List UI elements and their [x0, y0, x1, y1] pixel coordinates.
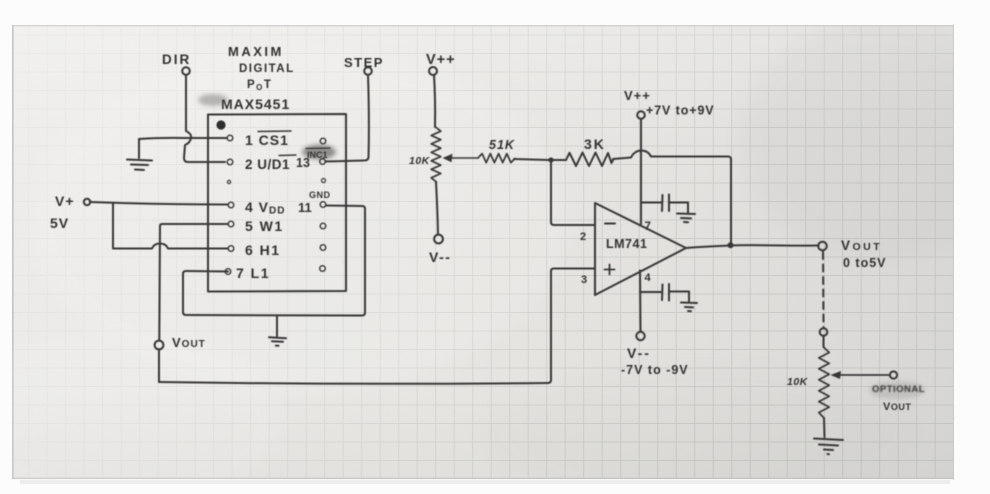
svg-text:LM741: LM741 [606, 237, 647, 251]
potentiometer R4 10K element [819, 347, 829, 418]
label POT [247, 79, 272, 92]
svg-text:51K: 51K [489, 138, 515, 152]
wire 3K to feedback corner (hops over V++ line) [613, 151, 731, 245]
pin 4 circle [228, 202, 234, 208]
ground G3 (C1) [677, 203, 695, 223]
ground G4 (C2) [681, 292, 697, 312]
label 0 to 5V [843, 256, 887, 270]
svg-text:7 L1: 7 L1 [236, 265, 270, 281]
ink layer [50, 44, 925, 454]
right pin circle row 1 [320, 138, 326, 144]
op-amp minus sign [605, 223, 615, 225]
node V++ label (op-amp) [624, 88, 651, 103]
svg-text:+7V to+9V: +7V to+9V [646, 104, 715, 118]
node STEP terminal [364, 67, 372, 75]
wire VOUT column down to long bottom wire [158, 349, 160, 382]
stray pin dot [227, 180, 230, 183]
ground G1 (CS1 pin) [127, 139, 152, 170]
capacitor C2 leads [640, 291, 689, 294]
pin 7 label 7 L1 [236, 265, 270, 281]
IC pin-1 indicator dot [216, 120, 225, 129]
value label 51K [489, 138, 515, 152]
pin 13 number [296, 156, 310, 170]
wire V++ to pot top [434, 75, 435, 127]
node VOUT label (left) [172, 335, 206, 350]
node V-- supply terminal [636, 332, 644, 340]
pin 5 circle [228, 221, 234, 227]
node V++ label (pot) [426, 52, 456, 68]
svg-text:0 to5V: 0 to5V [843, 256, 887, 270]
label OPTIONAL [872, 384, 925, 395]
svg-text:V--: V-- [429, 249, 451, 265]
svg-text:3K: 3K [584, 136, 606, 152]
pin 2 circle [227, 159, 233, 165]
svg-text:VOUT: VOUT [883, 401, 911, 413]
pin 2 label 2U/D1 with overline [245, 157, 290, 172]
label +7V to +9V [646, 104, 715, 118]
svg-text:MAX5451: MAX5451 [221, 96, 290, 112]
svg-text:V++: V++ [624, 88, 651, 103]
svg-text:6 H1: 6 H1 [245, 242, 281, 258]
ground G2 (IC loop) [269, 316, 286, 346]
svg-text:-7V to -9V: -7V to -9V [621, 363, 689, 377]
label MAXIM [228, 44, 284, 59]
resistor R2 51K element [478, 154, 515, 163]
pot R4 wiper arrow [837, 374, 889, 376]
wire pot bottom to ground [823, 418, 826, 437]
svg-text:4: 4 [645, 272, 652, 284]
op-amp plus sign [605, 265, 615, 275]
svg-text:10K: 10K [409, 155, 431, 167]
pin 7 circle [225, 269, 231, 275]
wire feedback junction down to pin 2 [551, 160, 595, 225]
label DIGITAL [239, 63, 295, 75]
svg-text:GND: GND [309, 190, 331, 200]
wire STEP to pin 13 [326, 75, 369, 162]
smudge near MAX5451 [198, 94, 228, 106]
node V++ terminal (pot) [429, 67, 437, 75]
pin label 2 [580, 231, 586, 243]
label MAX5451 [221, 96, 290, 112]
node V++ supply terminal [637, 111, 645, 119]
node 5V label [50, 215, 69, 231]
smudge over INC1 [302, 145, 336, 160]
svg-text:10K: 10K [787, 376, 809, 388]
capacitor C1 plates [662, 195, 669, 212]
label -7V to -9V [621, 363, 689, 377]
svg-text:5 W1: 5 W1 [245, 218, 284, 234]
IC U1 MAX5451 body [208, 114, 346, 292]
svg-text:MAXIM: MAXIM [228, 44, 284, 59]
pin label 3 [581, 274, 587, 286]
junction node A dot [548, 157, 553, 162]
right pin circle row 6 [320, 245, 326, 251]
pin label 4 [645, 272, 652, 284]
node STEP label [344, 55, 384, 70]
node V-- terminal (pot) [434, 235, 443, 244]
node VOUT terminal (left) [155, 341, 164, 350]
node DIR terminal [182, 67, 190, 75]
pin 13 circle [320, 159, 326, 165]
op-amp label LM741 [606, 237, 647, 251]
pin 6 circle [228, 246, 234, 252]
value label 10K (pot R4) [787, 376, 809, 388]
value label 3K [584, 136, 606, 152]
wire V+ branch down to H1 (hops over W1 wire) [113, 203, 228, 249]
wire 51K to junction [514, 159, 549, 160]
wire terminal to pot top [823, 336, 825, 347]
pin 4 label 4VDD [245, 199, 285, 217]
pin 1 label 1CS1 with overline [245, 132, 289, 148]
ground G5 (optional pot) [814, 439, 843, 455]
node V-- label (pot) [429, 249, 451, 265]
pot R1 wiper arrow [449, 157, 478, 159]
svg-text:DIGITAL: DIGITAL [239, 63, 295, 75]
pin 6 label 6 H1 [245, 242, 281, 258]
wire op-amp output to VOUT [686, 245, 819, 248]
pin 1 circle [227, 135, 233, 141]
svg-text:V+: V+ [55, 193, 75, 209]
svg-text:1 CS1: 1 CS1 [245, 132, 289, 148]
svg-text:STEP: STEP [344, 55, 384, 70]
op-amp U2 triangle [595, 203, 686, 295]
pin 11 label GND [309, 190, 331, 200]
node optional VOUT terminal [890, 371, 897, 378]
node DIR label [162, 52, 191, 67]
right pin circle row 7 [320, 266, 326, 272]
pin 11 circle [320, 202, 326, 208]
wire long bottom run to op-amp + input [159, 269, 595, 384]
svg-text:5V: 5V [50, 215, 69, 231]
capacitor C2 plates [662, 284, 669, 301]
right pin circle row 5 [320, 223, 326, 229]
pin label 7 [645, 221, 651, 233]
svg-text:13: 13 [296, 156, 310, 170]
svg-text:V++: V++ [426, 52, 456, 68]
pin 11 number [298, 200, 312, 215]
potentiometer R1 10K element [431, 127, 441, 182]
wire dashed VOUT to optional pot [822, 252, 825, 327]
svg-text:DIR: DIR [162, 52, 191, 67]
wire DIR to pin 2 (hops over CS1 wire) [184, 75, 225, 162]
svg-text:11: 11 [298, 200, 312, 215]
svg-text:INC1: INC1 [307, 150, 328, 160]
wire V++ down to op-amp pin 7 [640, 119, 642, 224]
capacitor C1 leads [641, 202, 688, 204]
svg-text:3: 3 [581, 274, 587, 286]
wire CS1 pin to ground [139, 138, 227, 139]
node VOUT label (output) [841, 238, 882, 253]
svg-text:2 U/D1: 2 U/D1 [245, 157, 290, 172]
pin 13 label INC1 with overline [307, 150, 328, 160]
resistor R3 3K element [566, 153, 614, 167]
svg-text:OPTIONAL: OPTIONAL [872, 384, 925, 395]
wire W1 pin to VOUT column [159, 224, 228, 341]
smudge behind OPTIONAL [869, 381, 925, 399]
junction node B dot (feedback tap) [728, 242, 734, 248]
wire op-amp pin 4 down to V-- [639, 271, 642, 332]
svg-text:VOUT: VOUT [841, 238, 882, 253]
wire junction to 3K [551, 159, 566, 161]
wire L1 pin loop to GND pin 11 [183, 206, 365, 316]
node V+ terminal [84, 199, 90, 205]
value label 10K (pot R1) [409, 155, 431, 167]
label VOUT (optional) [883, 401, 911, 413]
right stray pin dot [322, 179, 326, 183]
node V+ label [55, 193, 75, 209]
wire pot bottom to V-- [436, 182, 438, 234]
node V-- label (op-amp) [627, 345, 651, 361]
node VOUT terminal (output) [818, 242, 827, 251]
pin 5 label 5 W1 [245, 218, 284, 234]
node optional pot top terminal [820, 328, 828, 336]
svg-text:V--: V-- [627, 345, 651, 361]
svg-text:2: 2 [580, 231, 586, 243]
wire V+ to pin 4 VDD [90, 202, 228, 205]
